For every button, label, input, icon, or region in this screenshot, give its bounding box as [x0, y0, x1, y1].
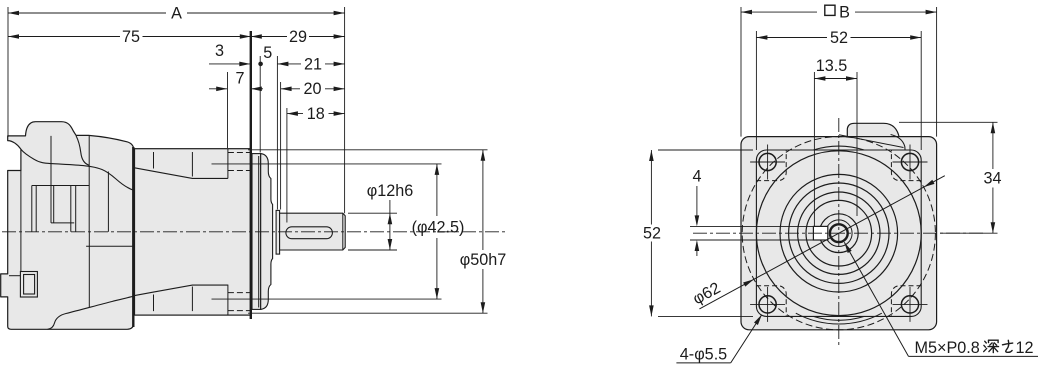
- svg-text:4-φ5.5: 4-φ5.5: [680, 346, 727, 364]
- svg-text:34: 34: [983, 170, 1001, 188]
- svg-text:21: 21: [304, 55, 322, 73]
- svg-text:φ12h6: φ12h6: [367, 182, 414, 200]
- svg-text:20: 20: [303, 80, 321, 98]
- svg-text:A: A: [171, 5, 182, 23]
- svg-text:12: 12: [1016, 339, 1034, 357]
- svg-text:(φ42.5): (φ42.5): [412, 219, 465, 237]
- svg-text:φ50h7: φ50h7: [460, 251, 507, 269]
- svg-text:13.5: 13.5: [816, 57, 848, 75]
- svg-text:7: 7: [235, 70, 244, 88]
- svg-text:B: B: [839, 3, 850, 21]
- svg-text:4: 4: [692, 168, 701, 186]
- svg-text:52: 52: [643, 225, 661, 243]
- svg-text:29: 29: [289, 28, 307, 46]
- svg-text:M5×P0.8: M5×P0.8: [915, 339, 980, 357]
- svg-text:52: 52: [830, 29, 848, 47]
- svg-text:5: 5: [263, 44, 272, 62]
- svg-text:3: 3: [215, 42, 224, 60]
- svg-text:75: 75: [122, 28, 140, 46]
- svg-text:18: 18: [307, 105, 325, 123]
